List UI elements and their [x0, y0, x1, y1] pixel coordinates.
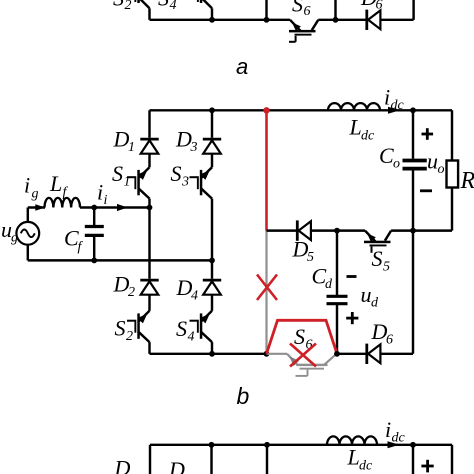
figure b: diode D3 — [203, 139, 221, 154]
svg-text:S: S — [294, 324, 305, 349]
svg-text:S: S — [292, 0, 303, 17]
figure b: diode D5 — [297, 220, 311, 240]
svg-text:L: L — [347, 445, 360, 470]
svg-text:6: 6 — [386, 333, 393, 348]
svg-text:g: g — [32, 187, 39, 202]
figure a: transistor S2 leg bottom fragment — [134, 0, 149, 20]
figure b: red fault cross X on S6 — [290, 344, 316, 367]
svg-text:S: S — [158, 0, 169, 11]
figure b: label D1 — [113, 127, 136, 156]
figure b: transistor S4 — [190, 311, 213, 342]
figure b: label D4 — [176, 275, 199, 304]
figure b: gray disabled transistor S6 — [287, 354, 337, 376]
svg-text:D: D — [113, 272, 130, 297]
svg-text:dc: dc — [359, 459, 373, 474]
svg-text:L: L — [49, 171, 62, 196]
svg-text:g: g — [11, 231, 18, 246]
svg-text:S: S — [372, 246, 383, 271]
figure a: label S4 bottom fragment — [158, 0, 177, 13]
svg-text:2: 2 — [126, 329, 133, 344]
figure a: wire D6 to right corner — [380, 0, 413, 20]
svg-text:D: D — [114, 456, 131, 474]
figure b: label D5 — [292, 237, 315, 266]
figure c: current arrow i_dc — [388, 441, 400, 448]
figure b: label i_dc — [384, 85, 405, 114]
figure c: label D1 top fragment — [114, 456, 131, 474]
figure b: minus sign C_d — [347, 275, 357, 278]
figure b: wire D4 to S4 — [211, 295, 213, 311]
figure b: label L_dc — [349, 115, 376, 144]
figure b: capacitor C_f — [85, 208, 104, 261]
svg-text:L: L — [349, 115, 362, 140]
figure b: label C_o — [379, 143, 400, 172]
figure b: red highlighted dc mid wire upper — [265, 110, 268, 230]
svg-text:o: o — [438, 162, 445, 177]
svg-text:S: S — [171, 161, 182, 186]
figure b: diode D1 — [140, 139, 158, 154]
figure b: capacitor C_d — [327, 231, 348, 354]
figure b: node dot filter cap bottom — [91, 258, 97, 264]
svg-text:4: 4 — [191, 289, 198, 304]
svg-text:2: 2 — [125, 0, 132, 13]
figure b: node dot Co top — [410, 107, 416, 113]
svg-text:dc: dc — [392, 431, 406, 446]
svg-text:D: D — [175, 127, 192, 152]
figure b: current arrow i_i — [117, 204, 128, 211]
figure b: node dot Cd top — [334, 228, 340, 234]
figure b: capacitor C_o — [403, 110, 427, 230]
svg-text:o: o — [393, 157, 400, 172]
figure b: inductor L_dc — [328, 103, 380, 110]
figure b: transistor S2 — [127, 311, 150, 342]
figure b: label u_g — [1, 217, 18, 246]
figure b: wire D6 to right vertical — [380, 231, 413, 354]
figure b: node dot filter cap top — [91, 205, 97, 211]
svg-text:i: i — [97, 180, 103, 205]
figure b: wire D1 to S1 — [148, 154, 150, 168]
svg-text:D: D — [360, 0, 377, 10]
svg-text:D: D — [168, 457, 185, 474]
figure a: caption a — [236, 54, 248, 79]
figure a: transistor S4 leg bottom fragment — [197, 0, 212, 20]
figure a: diode D6 — [367, 10, 381, 30]
figure b: wire inductor to bridge — [80, 206, 150, 208]
svg-text:u: u — [361, 282, 372, 307]
figure c: capacitor Co branch wire — [412, 445, 414, 474]
svg-text:2: 2 — [128, 285, 135, 300]
figure b: wire D5 to Cd node — [311, 229, 337, 231]
figure b: caption b — [237, 383, 250, 409]
svg-text:3: 3 — [190, 140, 198, 155]
figure b: label S5 — [372, 246, 391, 275]
figure b: wire source bottom — [28, 245, 212, 261]
svg-text:C: C — [379, 143, 394, 168]
svg-text:D: D — [371, 319, 388, 344]
figure b: bottom rail left segment — [150, 353, 267, 355]
svg-text:S: S — [112, 161, 123, 186]
figure b: label u_o — [427, 149, 445, 178]
figure a: transistor S6 — [289, 20, 318, 42]
svg-text:i: i — [24, 173, 30, 198]
figure b: label i_i — [97, 180, 108, 209]
figure b: label S2 — [115, 316, 134, 345]
figure b: label D3 — [175, 127, 198, 156]
figure c: label D3 top fragment — [168, 457, 185, 474]
figure b: wire S1 to midpoint — [148, 199, 150, 208]
figure b: label D2 — [113, 272, 136, 301]
figure c: node dot Co top — [410, 442, 416, 448]
figure b: wire source to inductor — [28, 208, 45, 222]
figure b: gray disabled dc mid wire lower — [265, 231, 267, 354]
figure b: wire dc-mid to D5 — [267, 229, 297, 231]
svg-text:d: d — [325, 277, 333, 292]
figure b: label R — [460, 168, 474, 194]
svg-text:i: i — [104, 193, 108, 208]
figure b: wire Cd node to D6 — [337, 353, 366, 355]
svg-text:4: 4 — [170, 0, 177, 13]
figure b: red bypass trapezoid path — [267, 320, 338, 354]
figure b: wire Co node to R branch — [413, 229, 452, 231]
figure b: wire D2 to S2 — [148, 295, 150, 311]
svg-text:R: R — [460, 168, 474, 194]
figure b: label L_f — [49, 171, 69, 200]
figure b: node dot S4 bottom — [209, 351, 215, 357]
figure b: top rail — [150, 109, 453, 111]
figure b: plus sign output — [422, 128, 434, 140]
figure a: junction dot and stub Cd branch — [333, 0, 339, 23]
figure b: wire S4 to bottom rail — [211, 342, 213, 354]
figure a: junction dot and stub dc-mid branch — [264, 0, 270, 23]
figure b: node dot leg2 midpoint — [209, 258, 215, 264]
figure b: node dot red dc mid top (red) — [263, 107, 269, 113]
figure c: plus sign output — [421, 460, 433, 473]
svg-text:S: S — [115, 316, 126, 341]
figure b: node dot leg1 midpoint — [147, 205, 153, 211]
figure b: leg1 upper wire — [148, 110, 150, 138]
figure b: label C_d — [312, 264, 334, 293]
svg-text:dc: dc — [391, 98, 405, 113]
figure b: wire S5 to Co node — [391, 229, 413, 231]
figure b: node dot leg2 top — [209, 107, 215, 113]
svg-text:b: b — [237, 383, 250, 409]
svg-text:6: 6 — [304, 4, 311, 19]
figure a: label S2 bottom fragment — [113, 0, 132, 13]
svg-text:D: D — [292, 237, 309, 262]
figure b: current arrow i_g — [35, 204, 45, 210]
svg-text:1: 1 — [128, 140, 135, 155]
svg-text:3: 3 — [181, 175, 189, 190]
figure b: node dot Co bottom — [410, 228, 416, 234]
figure b: transistor S5 — [364, 231, 391, 253]
figure c: leg1 wire — [149, 445, 151, 474]
figure b: diode D2 — [140, 280, 158, 295]
figure b: wire Cd node to S5 — [337, 229, 365, 231]
figure b: transistor S1 — [127, 167, 150, 198]
figure b: label S4 — [176, 316, 195, 345]
figure b: gray disabled rail segment left — [267, 353, 288, 355]
figure b: label S3 — [171, 161, 190, 190]
svg-text:u: u — [427, 149, 438, 174]
svg-text:S: S — [176, 316, 187, 341]
svg-text:D: D — [176, 275, 193, 300]
figure b: label i_g — [24, 173, 39, 202]
svg-text:i: i — [384, 85, 390, 110]
figure b: node dot Cd bottom — [334, 351, 340, 357]
figure c: leg2 wire — [209, 442, 215, 474]
figure b: node dot S6 left — [264, 351, 270, 357]
figure b: wire S3 to midpoint — [211, 199, 213, 261]
figure b: label C_f — [64, 226, 84, 255]
figure b: label S6 — [294, 324, 313, 353]
svg-text:5: 5 — [383, 260, 390, 275]
figure b: leg1 wire midpoint to D2 — [148, 208, 150, 279]
figure a: label S6 — [292, 0, 311, 19]
figure c: label L_dc — [347, 445, 374, 474]
svg-text:d: d — [371, 296, 379, 311]
figure a: bottom rail left segment — [150, 19, 291, 21]
figure b: label S1 — [112, 161, 131, 190]
figure b: red fault cross X on dc mid wire — [257, 275, 277, 301]
figure b: diode D6 — [367, 344, 381, 364]
figure b: diode D4 — [203, 280, 221, 295]
svg-text:D: D — [113, 127, 130, 152]
figure b: load resistor R — [447, 110, 459, 230]
figure b: current arrow i_dc — [388, 107, 400, 114]
figure b: label u_d — [361, 282, 380, 311]
svg-text:S: S — [113, 0, 124, 11]
figure a: wire S6 to D6 — [318, 19, 366, 21]
figure b: plus sign C_d — [346, 312, 358, 324]
figure a: label D6 bottom fragment — [360, 0, 383, 13]
figure c: label i_dc — [385, 417, 406, 446]
figure b: leg2 upper wire — [211, 110, 213, 138]
figure c: load R branch wire — [451, 445, 453, 474]
figure c: dc mid branch wire — [264, 442, 270, 474]
figure b: wire D3 to S3 — [211, 154, 213, 168]
svg-text:4: 4 — [188, 330, 195, 345]
figure a: junction dot S4 leg — [209, 17, 215, 23]
figure b: wire S2 to bottom rail — [148, 342, 150, 354]
figure b: ac source u_g — [16, 222, 39, 245]
figure b: inductor L_f — [45, 198, 81, 208]
svg-text:a: a — [236, 54, 248, 79]
svg-text:i: i — [385, 417, 391, 442]
figure b: minus sign output — [420, 189, 432, 192]
figure b: leg2 wire midpoint to D4 — [211, 260, 213, 278]
figure c: inductor L_dc — [327, 436, 377, 444]
figure c: top rail — [150, 444, 452, 446]
figure b: transistor S3 — [190, 167, 213, 198]
figure b: label D6 — [371, 319, 394, 348]
svg-text:dc: dc — [361, 129, 375, 144]
